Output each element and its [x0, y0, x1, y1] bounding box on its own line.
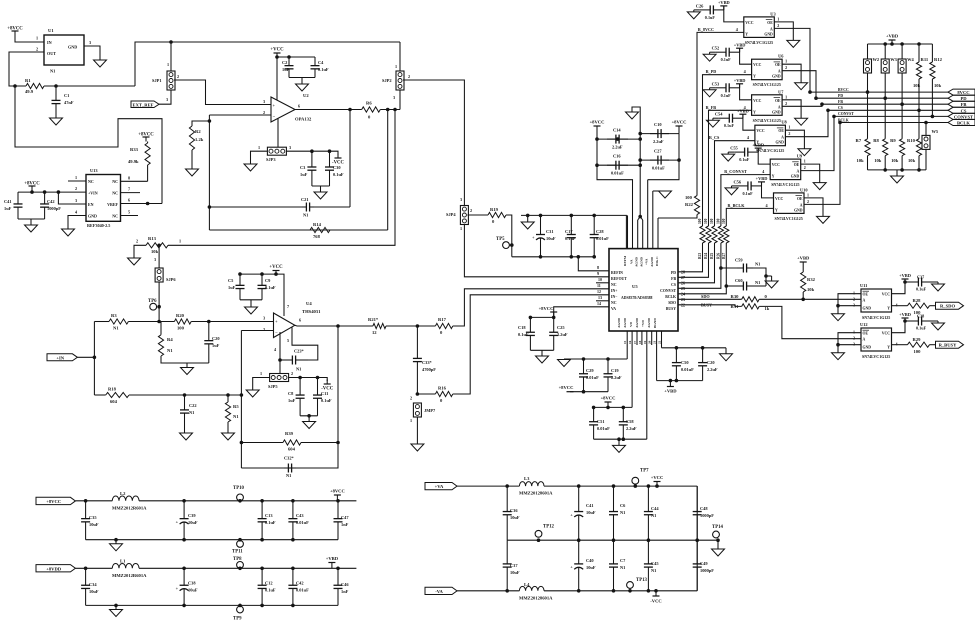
- resistor R8: [873, 138, 888, 163]
- wire: [892, 344, 908, 346]
- svg-text:CS: CS: [671, 283, 676, 287]
- svg-text:13: 13: [598, 295, 602, 300]
- wire: [399, 42, 401, 71]
- label pin13: [598, 295, 602, 300]
- svg-text:+8VCC: +8VCC: [138, 133, 154, 138]
- svg-text:GND: GND: [791, 175, 800, 179]
- svg-text:GND: GND: [794, 208, 803, 212]
- svg-text:N1: N1: [651, 513, 656, 518]
- svg-text:1: 1: [410, 418, 412, 423]
- capacitor C13: [258, 501, 276, 540]
- label W5: [932, 129, 939, 134]
- wire: [884, 98, 886, 139]
- label W3: [890, 57, 897, 62]
- buffer U8: [755, 120, 788, 154]
- svg-text:3: 3: [154, 257, 156, 262]
- svg-text:W5: W5: [932, 129, 939, 134]
- wire: [710, 51, 716, 53]
- svg-text:C5: C5: [228, 278, 234, 283]
- jumper JMP7: [413, 403, 436, 417]
- svg-text:C53: C53: [712, 81, 720, 86]
- capacitor C41: [570, 486, 596, 540]
- svg-text:+VBD: +VBD: [734, 42, 746, 47]
- svg-text:2: 2: [410, 396, 412, 401]
- resistor R3: [109, 313, 128, 331]
- wire c59: [719, 266, 737, 270]
- label pin2: [777, 23, 779, 28]
- svg-text:R7: R7: [856, 138, 862, 143]
- power +VBD: [737, 108, 749, 114]
- wire refm stub: [627, 215, 629, 248]
- label pin2: [136, 239, 138, 244]
- svg-text:C22: C22: [189, 403, 197, 408]
- svg-text:15: 15: [623, 340, 627, 344]
- power -VCC: [332, 154, 345, 166]
- net flag R_SDO: [936, 302, 964, 309]
- svg-text:+VBD: +VBD: [797, 256, 810, 261]
- label pin4: [75, 210, 78, 215]
- svg-text:8VCC: 8VCC: [957, 90, 969, 95]
- wire VA: [554, 307, 609, 318]
- svg-text:C50: C50: [681, 360, 689, 365]
- svg-text:N1: N1: [189, 410, 194, 415]
- wire: [930, 281, 938, 283]
- wire: [702, 223, 704, 226]
- wire: [75, 567, 112, 571]
- svg-text:W4: W4: [907, 57, 914, 62]
- capacitor C21: [302, 203, 314, 212]
- ground: [798, 149, 811, 156]
- svg-text:N1: N1: [755, 280, 760, 285]
- svg-text:R31: R31: [731, 304, 740, 309]
- svg-text:12: 12: [597, 289, 601, 294]
- label pin4: [744, 69, 747, 74]
- svg-text:0.1uF: 0.1uF: [565, 236, 576, 241]
- label pin2: [177, 74, 179, 79]
- wire R14 row: [209, 229, 387, 231]
- label pin25: [681, 286, 685, 291]
- capacitor C37: [910, 278, 930, 287]
- ground: [222, 428, 235, 440]
- svg-text:PD: PD: [671, 271, 676, 275]
- label pin3: [263, 99, 265, 104]
- wire: [710, 87, 716, 89]
- svg-text:2: 2: [136, 239, 138, 244]
- ground: [722, 152, 735, 161]
- wire: [694, 9, 700, 11]
- wire: [696, 540, 698, 591]
- capacitor label C52: [712, 46, 720, 51]
- label C60: [735, 278, 743, 283]
- jumper SJP6: [155, 268, 176, 282]
- svg-text:C56: C56: [734, 179, 742, 184]
- label pin28: [681, 269, 685, 274]
- ground: [832, 314, 845, 321]
- svg-text:R14: R14: [313, 222, 322, 227]
- svg-text:1uF: 1uF: [212, 343, 220, 348]
- svg-text:C31: C31: [546, 229, 554, 234]
- buffer U6: [752, 54, 785, 87]
- wire U2 minus: [209, 114, 271, 116]
- svg-text:C29: C29: [586, 368, 594, 373]
- svg-text:OE: OE: [775, 99, 781, 103]
- svg-text:C38: C38: [917, 314, 924, 319]
- net flag BCLK: [948, 120, 975, 126]
- svg-text:U11: U11: [860, 283, 867, 288]
- wire A to bus: [782, 102, 824, 106]
- svg-text:VA: VA: [630, 259, 634, 264]
- svg-text:R25: R25: [710, 253, 714, 259]
- svg-text:C49: C49: [700, 561, 708, 566]
- svg-text:5: 5: [128, 210, 130, 215]
- svg-text:DIG C: DIG C: [655, 256, 659, 266]
- svg-text:3: 3: [289, 145, 291, 150]
- resistor R39: [283, 431, 301, 452]
- wire vcc: [892, 318, 907, 333]
- svg-text:U1: U1: [48, 28, 54, 33]
- svg-text:AGND: AGND: [650, 256, 654, 267]
- svg-text:0.1uF: 0.1uF: [705, 15, 716, 20]
- svg-text:U9: U9: [797, 154, 803, 159]
- svg-text:FB: FB: [838, 100, 843, 104]
- svg-text:BCLK: BCLK: [665, 295, 676, 299]
- svg-text:C19: C19: [611, 368, 619, 373]
- label pin2: [853, 336, 855, 341]
- svg-text:10: 10: [598, 277, 602, 282]
- ground: [703, 88, 716, 97]
- svg-text:VA: VA: [611, 307, 616, 311]
- wire to ADC CONVST: [678, 243, 721, 288]
- label pin1: [36, 36, 38, 41]
- wire agnd2 stub: [652, 191, 654, 249]
- wire row1 gnd rail: [86, 538, 338, 542]
- svg-text:C20: C20: [212, 336, 220, 341]
- wire: [739, 48, 741, 52]
- svg-text:+8VCC: +8VCC: [330, 489, 345, 494]
- svg-text:20: 20: [648, 340, 652, 344]
- wire to IN-: [453, 295, 609, 394]
- label C14 value: [612, 145, 623, 150]
- svg-text:+VBD: +VBD: [752, 142, 764, 147]
- capacitor C39: [176, 501, 198, 540]
- svg-text:2: 2: [408, 74, 410, 79]
- svg-text:GND: GND: [88, 214, 97, 219]
- svg-text:0.1uF: 0.1uF: [916, 287, 927, 292]
- svg-text:8: 8: [128, 176, 130, 181]
- wire c29 rail: [564, 357, 627, 361]
- svg-text:TP14: TP14: [712, 525, 724, 530]
- svg-text:TP12: TP12: [543, 525, 555, 530]
- capacitor C20: [698, 348, 718, 381]
- capacitor C7: [609, 540, 626, 591]
- wire: [924, 121, 928, 136]
- test point TP10: [233, 486, 245, 501]
- net label CONVST: [838, 112, 854, 116]
- ground: [303, 416, 316, 429]
- label pin6: [298, 104, 300, 109]
- svg-text:+VBD: +VBD: [899, 312, 911, 317]
- capacitor C32: [284, 464, 296, 473]
- net label BVCC: [838, 88, 849, 92]
- svg-text:C43: C43: [296, 513, 304, 518]
- svg-text:0.01uF: 0.01uF: [296, 520, 309, 525]
- wire sdo to U11: [759, 298, 861, 300]
- net flag +8VDD: [36, 565, 75, 572]
- svg-text:1000pF: 1000pF: [700, 568, 714, 573]
- svg-text:10uF: 10uF: [188, 588, 198, 593]
- wire ref3040 gnd: [68, 216, 86, 230]
- capacitor value C52: [721, 57, 732, 62]
- svg-text:MMZ20128601A: MMZ20128601A: [519, 596, 553, 601]
- svg-text:TP8: TP8: [233, 557, 242, 562]
- svg-text:CONVST: CONVST: [660, 289, 676, 293]
- wire: [771, 276, 773, 281]
- svg-text:0.1uF: 0.1uF: [265, 285, 276, 290]
- power +VCC: [269, 265, 283, 274]
- wire bus CONVST: [834, 115, 948, 117]
- wire row2 gnd rail: [86, 604, 338, 608]
- svg-text:SN74LVC1G125: SN74LVC1G125: [775, 216, 803, 221]
- capacitor C52: [716, 48, 740, 57]
- svg-text:GND: GND: [764, 32, 773, 36]
- resistor R26: [716, 218, 723, 259]
- ground: [244, 164, 257, 171]
- svg-text:VD: VD: [629, 322, 633, 327]
- power +8VCC: [601, 396, 616, 408]
- capacitor C42: [288, 568, 309, 605]
- wire: [94, 394, 105, 396]
- svg-text:N1: N1: [233, 414, 239, 419]
- svg-text:1: 1: [179, 239, 181, 244]
- svg-text:R_FB: R_FB: [706, 105, 717, 110]
- svg-text:AGND: AGND: [617, 317, 621, 328]
- label pin2: [263, 327, 265, 332]
- net label BUSY: [701, 302, 712, 307]
- svg-text:BCLK: BCLK: [838, 118, 849, 122]
- ground: [94, 60, 107, 67]
- svg-text:+VCC: +VCC: [651, 475, 664, 480]
- wire U2 vplus stub: [276, 57, 278, 100]
- capacitor C30: [325, 151, 344, 186]
- power +VBD: [752, 142, 764, 148]
- svg-text:IN: IN: [47, 40, 52, 45]
- wire: [696, 486, 698, 540]
- wire: [930, 320, 938, 322]
- resistor R22: [685, 195, 700, 215]
- ground: [62, 229, 75, 236]
- resistor R17: [435, 317, 452, 335]
- svg-text:0.1uF: 0.1uF: [265, 588, 276, 593]
- power +VBD: [734, 42, 746, 48]
- wire vref loop: [15, 86, 162, 204]
- test point TP8: [233, 557, 243, 568]
- wire A to bus: [782, 71, 818, 100]
- svg-text:−: −: [273, 114, 276, 119]
- svg-text:10uF: 10uF: [586, 565, 596, 570]
- svg-text:IN−: IN−: [611, 295, 617, 299]
- wire oe gnd: [838, 294, 861, 314]
- ground: [128, 258, 141, 265]
- label pin5: [128, 210, 130, 215]
- resistor R30: [731, 294, 768, 302]
- wire agnd stub: [637, 220, 639, 249]
- wire oe gnd: [838, 333, 861, 353]
- wire OE gnd: [801, 164, 820, 183]
- capacitor C31: [532, 215, 556, 256]
- wire: [742, 114, 744, 118]
- svg-text:2: 2: [177, 74, 179, 79]
- wire c50 rail: [662, 346, 727, 350]
- wire busy: [678, 305, 742, 307]
- wire to ADC BCLK: [678, 243, 726, 294]
- wire gnd tie: [836, 343, 861, 347]
- svg-text:49.9k: 49.9k: [128, 159, 139, 164]
- svg-text:L1: L1: [120, 559, 126, 564]
- label pin1: [75, 175, 77, 180]
- capacitor C49: [693, 540, 715, 591]
- label pin3: [89, 40, 91, 45]
- label C59 value: [755, 262, 760, 267]
- ground: [817, 216, 830, 223]
- capacitor C6: [609, 486, 626, 540]
- svg-text:C41: C41: [4, 199, 12, 204]
- label C21 value: [303, 213, 308, 218]
- svg-text:10uF: 10uF: [89, 522, 99, 527]
- svg-text:C34: C34: [89, 582, 97, 587]
- svg-text:N1: N1: [620, 510, 625, 515]
- label C10: [654, 122, 662, 127]
- svg-text:Y: Y: [745, 32, 748, 36]
- svg-text:OE: OE: [767, 21, 773, 25]
- jumper W5: [922, 135, 930, 149]
- svg-text:C28: C28: [596, 229, 604, 234]
- net flag +8VCC: [36, 497, 75, 504]
- svg-text:1: 1: [788, 125, 790, 130]
- label pin26: [681, 280, 685, 285]
- net label: [728, 203, 746, 208]
- svg-text:AGND: AGND: [635, 317, 639, 328]
- svg-text:2: 2: [263, 327, 265, 332]
- jumper SJP2: [382, 71, 404, 90]
- wire U6 Y: [703, 75, 752, 223]
- svg-text:C27: C27: [654, 149, 662, 154]
- power +VCC: [270, 48, 284, 58]
- label pin1: [167, 62, 169, 67]
- wire vcc: [892, 279, 907, 294]
- capacitor value C55: [739, 157, 750, 162]
- svg-text:VCC: VCC: [745, 21, 753, 25]
- wire ref3040 en: [58, 192, 86, 204]
- wire to ADC PD: [678, 243, 703, 272]
- ground: [181, 363, 194, 375]
- svg-text:ADS8378/ADS8388: ADS8378/ADS8388: [621, 296, 653, 300]
- resistor R12: [930, 44, 943, 88]
- svg-text:6: 6: [299, 318, 301, 323]
- svg-text:CS: CS: [961, 108, 967, 113]
- capacitor C14: [607, 135, 628, 144]
- label C59: [735, 258, 743, 263]
- wire: [301, 441, 340, 445]
- wire to IN+: [453, 289, 609, 326]
- svg-text:Y: Y: [753, 110, 756, 114]
- power +8VCC: [330, 489, 345, 501]
- svg-text:C30: C30: [333, 165, 341, 170]
- svg-text:NC: NC: [611, 301, 617, 305]
- wire: [184, 428, 186, 433]
- capacitor label C26: [696, 3, 704, 8]
- wire to ADC CS: [678, 243, 715, 283]
- net flag 8VCC: [948, 89, 975, 95]
- wire: [128, 321, 174, 323]
- label C32 value: [286, 473, 291, 478]
- wire: [416, 417, 418, 444]
- svg-text:N1: N1: [286, 473, 291, 478]
- svg-text:+: +: [570, 512, 573, 517]
- test point TP13: [627, 578, 648, 588]
- resistor R32: [801, 272, 816, 292]
- label pin2: [804, 165, 806, 170]
- svg-text:N1: N1: [50, 69, 55, 74]
- capacitor C28: [590, 215, 609, 256]
- wire r4c20 tie: [161, 356, 209, 363]
- resistor R27: [722, 218, 729, 259]
- wire: [930, 305, 936, 307]
- label pin3: [460, 197, 462, 202]
- wire U9 Y: [721, 175, 770, 223]
- svg-text:C1: C1: [64, 93, 69, 98]
- svg-text:MMZ2012R601A: MMZ2012R601A: [112, 506, 147, 511]
- svg-text:L2: L2: [120, 491, 126, 496]
- label pin2: [408, 74, 410, 79]
- resistor R31: [731, 304, 770, 311]
- power +8VCC: [559, 385, 574, 392]
- wire c10 row: [638, 132, 679, 136]
- wire vbd drop: [743, 114, 755, 130]
- svg-text:10k: 10k: [908, 158, 916, 163]
- svg-text:GND: GND: [68, 45, 77, 50]
- capacitor C42: [40, 192, 61, 219]
- ground: [706, 118, 719, 127]
- svg-text:N1: N1: [651, 568, 656, 573]
- svg-text:C51: C51: [597, 419, 605, 424]
- svg-text:NC: NC: [88, 179, 94, 184]
- svg-text:R17: R17: [438, 317, 447, 322]
- svg-text:C6: C6: [620, 503, 626, 508]
- svg-text:R16: R16: [438, 386, 447, 391]
- svg-text:Y: Y: [772, 175, 775, 179]
- svg-text:VCC: VCC: [775, 197, 783, 201]
- capacitor C55: [734, 148, 758, 157]
- svg-text:+8VCC: +8VCC: [7, 27, 23, 32]
- buffer U12: [860, 322, 892, 359]
- svg-text:C12: C12: [265, 581, 273, 586]
- svg-text:N1: N1: [296, 367, 301, 372]
- label pin8: [128, 176, 130, 181]
- label pin2: [785, 65, 787, 70]
- svg-text:4700pF: 4700pF: [422, 367, 436, 372]
- wire: [901, 156, 903, 170]
- svg-text:U3: U3: [770, 11, 776, 16]
- test point TP12: [535, 525, 554, 538]
- wire U1 gnd: [84, 46, 100, 60]
- label pin7: [287, 304, 289, 309]
- wire R13 left: [134, 245, 146, 258]
- label pin14: [597, 301, 601, 306]
- jumper SJP5: [268, 374, 289, 390]
- svg-text:CONVST: CONVST: [838, 112, 854, 116]
- ground: [720, 348, 733, 361]
- svg-text:GND: GND: [863, 346, 872, 350]
